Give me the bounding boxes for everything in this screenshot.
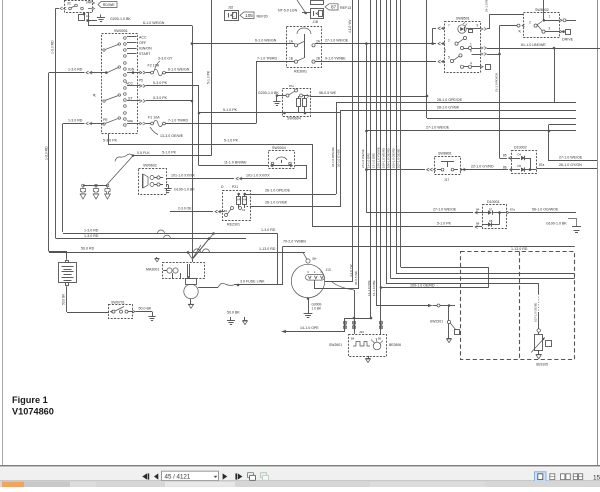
resistor block under relay — [79, 15, 85, 21]
svg-text:SW0604: SW0604 — [287, 117, 301, 121]
svg-text:107-1.0 OE/BE: 107-1.0 OE/BE — [534, 302, 538, 322]
svg-text:26-1.0 GY/BK: 26-1.0 GY/BK — [265, 201, 288, 205]
wire junction x345 — [344, 318, 346, 332]
svg-text:1-3.0 RD: 1-3.0 RD — [261, 228, 276, 232]
wire vertical x549 to lamp wires — [548, 131, 550, 161]
svg-text:88: 88 — [476, 222, 480, 226]
starter feed fan — [193, 234, 213, 259]
battery BT0001 — [59, 263, 77, 283]
wire SW2201 feed — [376, 305, 428, 307]
svg-text:F1 10A: F1 10A — [148, 115, 160, 119]
toolbar prev view icon — [248, 473, 254, 478]
svg-text:87b: 87b — [86, 1, 91, 5]
svg-text:87: 87 — [331, 4, 337, 9]
svg-text:9: 9 — [477, 24, 479, 28]
svg-text:5-1.0 PK: 5-1.0 PK — [223, 108, 238, 112]
toolbar background — [0, 467, 600, 481]
svg-text:26-1.0 GY/GN: 26-1.0 GY/GN — [559, 163, 582, 167]
svg-text:1-3.0 RD: 1-3.0 RD — [51, 40, 55, 54]
wire 3.0 FUSE LINK — [198, 287, 218, 289]
page bottom edge — [0, 465, 600, 467]
svg-text:DRIVE: DRIVE — [562, 38, 574, 42]
lamp switch SW8501 — [445, 22, 481, 73]
ground G200-1.0 BK (relay) — [88, 20, 97, 22]
LED indicator in SW8501 — [458, 25, 466, 33]
svg-text:V1074860: V1074860 — [12, 407, 54, 417]
wire 96-0.5 WE rail — [310, 96, 427, 98]
svg-text:RD/WE: RD/WE — [103, 3, 116, 7]
svg-text:9-1.0 YW/BE: 9-1.0 YW/BE — [325, 56, 346, 60]
svg-text:1-13.0 RD: 1-13.0 RD — [511, 247, 528, 251]
svg-text:5: 5 — [448, 56, 450, 60]
svg-text:4-1.0 YW: 4-1.0 YW — [349, 264, 353, 277]
svg-text:B6: B6 — [378, 337, 382, 341]
SW8002 pin3 DRIVE — [545, 31, 560, 33]
page left border — [2, 0, 4, 465]
svg-text:81-1.0 LBE/WE: 81-1.0 LBE/WE — [521, 43, 546, 47]
svg-text:J32: J32 — [228, 6, 233, 10]
wire to relay — [56, 8, 60, 10]
svg-text:96-0.5 WE: 96-0.5 WE — [319, 91, 337, 95]
svg-text:3-3.0 GY: 3-3.0 GY — [158, 57, 173, 61]
svg-text:START: START — [139, 52, 151, 56]
svg-text:2: 2 — [529, 20, 531, 24]
svg-text:87a: 87a — [539, 163, 545, 167]
toolbar page number input — [162, 471, 219, 480]
wire 1-3.0 RD y233.5 — [63, 233, 278, 235]
flag 87 REF13 — [325, 4, 338, 10]
svg-text:87a: 87a — [510, 207, 515, 211]
wire 26-1.0 GY/GN right — [537, 168, 598, 170]
main harness dashed box — [461, 252, 575, 360]
svg-text:7: 7 — [448, 24, 450, 28]
svg-text:J17: J17 — [444, 178, 449, 182]
wire 22-1.0 GY/RD — [461, 169, 504, 171]
wire corner x549 upper — [548, 125, 550, 132]
svg-text:RE3001: RE3001 — [294, 70, 307, 74]
wire 5-3.0 PK bottom of SW0001 — [108, 134, 110, 144]
wire vertical x427 — [426, 0, 428, 118]
toolbar prev page button — [154, 473, 158, 479]
svg-text:27-1.0 WE/OE: 27-1.0 WE/OE — [325, 38, 349, 42]
svg-text:50.0 BK: 50.0 BK — [62, 293, 66, 305]
svg-text:0.5 FLK: 0.5 FLK — [137, 151, 150, 155]
svg-text:2: 2 — [448, 39, 450, 43]
svg-text:7-1.0 TN/RD: 7-1.0 TN/RD — [257, 56, 278, 60]
svg-text:SW0001: SW0001 — [114, 29, 128, 33]
SW8501 right pins — [472, 48, 481, 50]
svg-text:D10001: D10001 — [487, 200, 500, 204]
svg-text:J8: J8 — [518, 30, 522, 34]
view mode continuous — [550, 474, 555, 480]
connector J32 — [225, 11, 239, 21]
svg-text:24-1.0 RD: 24-1.0 RD — [485, 0, 489, 12]
svg-text:14-1.0 OPE: 14-1.0 OPE — [367, 280, 371, 296]
wire vertical x433 pin7 loop — [432, 28, 434, 43]
svg-text:B+: B+ — [313, 257, 317, 261]
wire x499.5 to pin 85 — [500, 158, 508, 160]
relay RD/WE (top left) — [65, 1, 93, 13]
svg-text:J1: J1 — [443, 49, 447, 53]
splice terminals — [83, 185, 108, 187]
svg-text:107-1.0 OE/BE: 107-1.0 OE/BE — [397, 148, 401, 168]
svg-text:BE2606: BE2606 — [389, 343, 401, 347]
svg-text:5-3.0 PK: 5-3.0 PK — [103, 139, 118, 143]
svg-text:22-1.0 GY/RD: 22-1.0 GY/RD — [471, 164, 494, 168]
wire x427 to 118 rail — [427, 118, 576, 120]
svg-text:IGN: IGN — [128, 67, 135, 71]
ground G100-1.0 BK (horn) — [166, 184, 168, 186]
wire 50.0 BK to ground — [136, 311, 153, 313]
bus vertical wires (harness) — [352, 0, 354, 281]
svg-text:5-3.0 PK: 5-3.0 PK — [153, 81, 168, 85]
svg-text:B1: B1 — [224, 209, 228, 213]
svg-text:109-1.0 OE/RD: 109-1.0 OE/RD — [410, 283, 435, 287]
wire 5-1.0 PK x199 to bus — [199, 112, 341, 114]
wire 1-13.0 RD — [49, 252, 305, 254]
temp/buzzer unit SW2601 BE2606 — [349, 335, 387, 357]
svg-text:101-1.0 XX/XX: 101-1.0 XX/XX — [171, 174, 195, 178]
diode D5 row — [512, 169, 521, 171]
wire vertical 6-1.0 WE/GN x192 — [192, 26, 194, 258]
wire 6-1.0 WE/GN from F2 — [165, 72, 192, 74]
svg-text:45 / 4121: 45 / 4121 — [165, 474, 191, 481]
wire 24-1.0 x489 — [487, 28, 490, 30]
svg-text:2-3.0 OE: 2-3.0 OE — [178, 206, 192, 210]
svg-text:D10002: D10002 — [514, 146, 527, 150]
wire 101-1.0 XX/XX from horn — [166, 178, 234, 180]
label 13-3.0 OE/WE — [150, 127, 158, 135]
pushbutton SW0004 — [269, 151, 295, 169]
svg-text:27-1.0 WE/OE: 27-1.0 WE/OE — [361, 149, 365, 168]
svg-text:1-13.0 RD: 1-13.0 RD — [259, 247, 276, 251]
svg-text:26-1.0 OPE/OE: 26-1.0 OPE/OE — [265, 189, 291, 193]
svg-text:SRE: SRE — [127, 119, 133, 123]
svg-text:84: 84 — [476, 207, 480, 211]
svg-text:OFF: OFF — [139, 41, 147, 45]
toolbar next view icon — [261, 473, 267, 478]
SW8501 contacts — [455, 42, 458, 45]
wire vertical 5-1.0 PK x211.5 — [211, 0, 213, 156]
svg-text:F2 10A: F2 10A — [148, 63, 160, 67]
svg-text:J4: J4 — [93, 93, 97, 97]
alternator GN0001 — [291, 264, 324, 297]
svg-text:101-1.0 XX/XX: 101-1.0 XX/XX — [246, 174, 270, 178]
svg-text:D8: D8 — [489, 219, 493, 223]
wire vertical x366 27-1.0 WE/OE — [366, 44, 368, 213]
svg-text:28-1.0 GY/BK: 28-1.0 GY/BK — [437, 105, 460, 109]
wire SW0004 to 101 line — [295, 165, 307, 167]
svg-text:D5: D5 — [518, 164, 522, 168]
wire 2-3.0 OE/BE into RE2301 — [170, 211, 213, 213]
svg-text:2B: 2B — [316, 56, 320, 60]
svg-text:15-1.0 OBE: 15-1.0 OBE — [372, 153, 376, 168]
svg-text:G100-1.0 BK: G100-1.0 BK — [174, 188, 195, 192]
connector pairs — [354, 290, 356, 334]
svg-text:5-1.0 PK: 5-1.0 PK — [162, 151, 177, 155]
horn switch SW0602 — [139, 169, 167, 195]
toolbar first page button — [142, 473, 147, 479]
wire 11-1.0 BN/WE — [199, 165, 268, 167]
svg-text:3: 3 — [549, 27, 551, 31]
svg-text:B4: B4 — [351, 337, 355, 341]
svg-text:1-3.0 RD: 1-3.0 RD — [84, 234, 99, 238]
alternator pin wires to bus — [325, 281, 354, 283]
svg-text:SW2201: SW2201 — [430, 319, 443, 323]
svg-text:3.0 FUSE LINK: 3.0 FUSE LINK — [240, 279, 265, 283]
harness divider — [519, 252, 521, 360]
svg-text:26-1.0 OPE/OE: 26-1.0 OPE/OE — [331, 147, 335, 167]
svg-text:RE2301: RE2301 — [227, 223, 240, 227]
wire 6-1.0 WE/GN to 1A — [192, 43, 294, 45]
wire 1-3.0 RD y238.6 — [56, 238, 247, 240]
svg-text:150-1.0 YW/WE: 150-1.0 YW/WE — [377, 147, 381, 168]
svg-text:96-0.5 WE: 96-0.5 WE — [354, 271, 358, 285]
svg-text:REF20: REF20 — [257, 14, 268, 18]
view mode single page (active) — [535, 472, 547, 482]
svg-text:J30: J30 — [359, 330, 364, 334]
wire 50.0 RD battery+ — [66, 252, 68, 260]
svg-text:14-1.0 OPE: 14-1.0 OPE — [300, 326, 319, 330]
wire 50.0 BK battery- — [66, 286, 68, 312]
svg-text:105: 105 — [245, 13, 253, 18]
relay RE3001 — [287, 27, 322, 68]
svg-text:REF13: REF13 — [340, 6, 351, 10]
wire 23-1.0 RD/GN x499.5 — [487, 54, 500, 56]
svg-text:SW0602: SW0602 — [143, 164, 157, 168]
toolbar next page button — [223, 473, 228, 479]
SW8002 feed wire — [500, 25, 518, 27]
wire 28-1.0 GY/BK rail — [341, 110, 576, 112]
svg-text:56-1.0 OG/WOE: 56-1.0 OG/WOE — [532, 207, 559, 211]
svg-text:1: 1 — [470, 42, 472, 46]
svg-text:AR: AR — [243, 198, 247, 202]
svg-text:27-1.0 WE/OE: 27-1.0 WE/OE — [426, 126, 450, 130]
svg-text:AR: AR — [237, 198, 241, 202]
wire left vertical x63 — [62, 124, 64, 233]
wire 9-1.0 YW/BE from 2B — [315, 61, 436, 63]
svg-text:G100-1.0 BK: G100-1.0 BK — [546, 221, 567, 225]
svg-text:1-3.0 RD: 1-3.0 RD — [45, 146, 49, 160]
diagonal to splices — [108, 156, 134, 184]
svg-text:ACC: ACC — [126, 81, 134, 85]
svg-text:G200-1.0 BK: G200-1.0 BK — [258, 91, 279, 95]
wire left vertical x55.5 — [55, 9, 57, 239]
svg-text:6: 6 — [470, 49, 472, 53]
ignition switch SW0001 — [102, 34, 138, 134]
svg-text:108-1.0 OE/RD: 108-1.0 OE/RD — [387, 148, 391, 168]
wire 1-3.0 RD to IGN — [49, 72, 85, 74]
svg-text:85: 85 — [503, 154, 507, 158]
alternator ground G0006 — [307, 297, 310, 300]
svg-text:A5: A5 — [86, 14, 90, 18]
svg-text:28-1.0 OPE/OE: 28-1.0 OPE/OE — [437, 98, 463, 102]
svg-text:ACC: ACC — [139, 36, 147, 40]
starter solenoid MA3001 — [163, 263, 205, 279]
pushbutton SW8801 — [435, 157, 461, 175]
svg-text:5-1.0 PK: 5-1.0 PK — [207, 70, 211, 84]
svg-text:SW2601: SW2601 — [329, 343, 342, 347]
svg-text:4-1.0 YW: 4-1.0 YW — [348, 20, 352, 33]
wire 27-1.0 WE/OE y212.6 — [365, 212, 367, 214]
svg-text:27-1.0 WE/OE: 27-1.0 WE/OE — [433, 207, 457, 211]
svg-text:6-1.0 WE/GN: 6-1.0 WE/GN — [143, 21, 165, 25]
wire 5-1.0 PK to vertical — [133, 155, 212, 157]
svg-text:27-1.0 WE/OE: 27-1.0 WE/OE — [559, 155, 583, 159]
bottom taskbar strip — [0, 481, 600, 487]
view mode facing — [561, 474, 565, 480]
wire 70-2.0 YW/BN — [283, 246, 575, 248]
svg-text:109-1.0 WE/RD: 109-1.0 WE/RD — [382, 148, 386, 168]
flag 105 REF20 — [240, 12, 254, 19]
wire 6-1.0 WE/GN top — [88, 25, 192, 27]
svg-text:50.0 RD: 50.0 RD — [81, 247, 95, 251]
svg-text:50.0 BK: 50.0 BK — [139, 307, 152, 311]
svg-text:P5: P5 — [139, 79, 143, 83]
svg-text:1.0 BK: 1.0 BK — [312, 307, 322, 311]
svg-text:1-3.0 RD: 1-3.0 RD — [84, 229, 99, 233]
svg-text:5-3.0 PK: 5-3.0 PK — [153, 96, 168, 100]
svg-text:7-1.0 TN/RD: 7-1.0 TN/RD — [168, 119, 189, 123]
svg-text:3C: 3C — [67, 2, 72, 6]
svg-text:4: 4 — [470, 62, 472, 66]
svg-text:70-2.0 YW/BN: 70-2.0 YW/BN — [283, 240, 306, 244]
svg-text:X2: X2 — [242, 208, 246, 212]
SW8002 pin1 output — [544, 20, 560, 22]
starter motor — [186, 279, 197, 285]
wire to SW8801 — [366, 169, 425, 171]
disconnect switch SW0701 — [109, 305, 133, 319]
wire vertical x488.7 — [488, 267, 490, 287]
wire vertical x199 — [198, 86, 200, 166]
svg-text:SE9105: SE9105 — [536, 363, 548, 367]
svg-text:87a: 87a — [289, 84, 294, 88]
ground G200-1.0 BK (seat) — [277, 95, 286, 97]
svg-text:MA3001: MA3001 — [146, 268, 159, 272]
diode pack D10001 — [483, 205, 507, 229]
svg-text:106-1.0 OE/RD: 106-1.0 OE/RD — [392, 148, 396, 168]
svg-text:IGN/ON: IGN/ON — [139, 47, 152, 51]
wire 27-1.0 WE/OE right — [549, 160, 597, 162]
wire 26-1.0 GY/BK — [250, 206, 341, 208]
svg-text:1: 1 — [549, 15, 551, 19]
svg-text:14-1.0 OPE: 14-1.0 OPE — [367, 153, 371, 168]
svg-text:5-1.0 PK: 5-1.0 PK — [437, 222, 452, 226]
wire B+ diagonal — [303, 252, 307, 259]
view mode continuous facing — [573, 474, 577, 480]
svg-text:1B: 1B — [289, 56, 293, 60]
svg-text:5-1.0 PK: 5-1.0 PK — [224, 139, 239, 143]
svg-text:NT-5.0 LGN: NT-5.0 LGN — [278, 8, 298, 12]
wire 81-1.0 LBE/WE — [487, 48, 600, 50]
svg-text:26-1.0 GY/BK: 26-1.0 GY/BK — [337, 149, 341, 167]
svg-text:6-1.0 WE/GN: 6-1.0 WE/GN — [168, 67, 190, 71]
wire 28-1.0 OPE/OE rail — [336, 102, 576, 104]
svg-text:23-1.0 RD/GN: 23-1.0 RD/GN — [495, 73, 499, 92]
svg-text:1-3.0 RD: 1-3.0 RD — [68, 119, 83, 123]
svg-text:SW0004: SW0004 — [272, 146, 286, 150]
diode pack D10002 — [512, 151, 537, 174]
wire 27-1.0 WE/OE rail y131 — [366, 130, 576, 132]
svg-text:SW8801: SW8801 — [438, 152, 452, 156]
svg-text:15-1.0 OBE: 15-1.0 OBE — [372, 280, 376, 296]
svg-text:G200-1.0 BK: G200-1.0 BK — [110, 17, 131, 21]
wire 56-1.0 OG/WOE — [500, 212, 508, 214]
PR row wire 1-3.0 RD — [63, 123, 85, 125]
wire y318 — [345, 318, 371, 320]
svg-text:J13: J13 — [326, 268, 331, 272]
wire 7-1.0 TN/RD to 1B — [256, 61, 294, 63]
svg-text:SW0701: SW0701 — [111, 301, 125, 305]
wire 14-1.0 OPE off-page — [281, 330, 286, 333]
svg-text:86: 86 — [503, 165, 507, 169]
svg-text:50.0 BK: 50.0 BK — [227, 310, 240, 314]
svg-text:SW8501: SW8501 — [456, 17, 470, 21]
svg-text:PR: PR — [103, 118, 108, 122]
toolbar last page button — [235, 473, 237, 479]
wire vertical x554 — [554, 48, 556, 103]
svg-text:J1B: J1B — [313, 20, 319, 24]
wire 1-3.0 RD left vertical x49 — [48, 73, 50, 252]
connector J1B — [311, 1, 324, 5]
svg-text:15: 15 — [593, 474, 600, 481]
wire vertical x256 to RE3001 1B — [256, 62, 258, 124]
seat switch SW0604 — [283, 89, 311, 117]
svg-text:D4: D4 — [518, 152, 522, 156]
fuel sender SE9105 — [538, 284, 540, 294]
svg-text:P21: P21 — [232, 185, 238, 189]
switch SW8002 — [524, 13, 560, 38]
svg-text:11-1.0 BN/WE: 11-1.0 BN/WE — [224, 161, 247, 165]
relay RE2301 glow plug — [223, 191, 251, 221]
svg-text:Figure 1: Figure 1 — [12, 395, 48, 405]
page right border — [597, 0, 599, 465]
wire 27-1.0 WE/OE from 2A — [315, 43, 436, 45]
wire vertical 5-1.0 PK x313 — [312, 144, 314, 227]
svg-text:13-3.0 OE/WE: 13-3.0 OE/WE — [160, 134, 184, 138]
svg-text:1-3.0 RD: 1-3.0 RD — [68, 68, 83, 72]
wire 26-1.0 OPE/OE — [245, 194, 336, 196]
svg-text:6-1.0 WE/GN: 6-1.0 WE/GN — [255, 38, 277, 42]
corner wires from bus to right — [401, 267, 489, 269]
wire 5-1.0 PK y227 — [313, 226, 473, 228]
svg-text:SW8002: SW8002 — [535, 8, 549, 12]
fusible link 0.5 FLK — [115, 154, 133, 161]
label RD/WE — [98, 2, 117, 8]
